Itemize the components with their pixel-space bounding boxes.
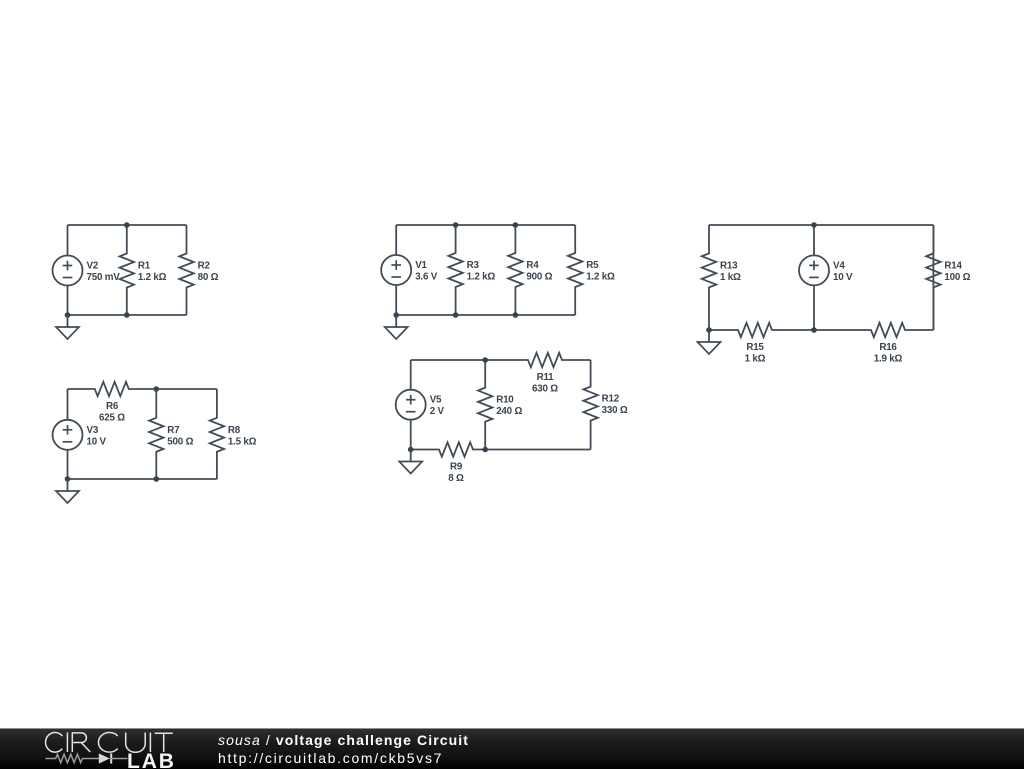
resistor R2 (80 Ω) bbox=[179, 225, 218, 315]
node junction V3 bottom / ground bbox=[65, 476, 71, 482]
voltage source V1 (3.6 V) bbox=[381, 225, 438, 315]
node junction R10 top bbox=[482, 357, 488, 363]
resistor R10 (240 Ω) bbox=[478, 360, 522, 450]
node junction R4 top bbox=[513, 222, 519, 228]
wire top rail right circuit4 bbox=[156, 388, 217, 390]
wire bottom rail circuit2 bbox=[396, 314, 575, 316]
node junction R3 bottom bbox=[453, 312, 459, 318]
resistor R11 (630 Ω) bbox=[485, 353, 590, 395]
logo wire with resistor bbox=[46, 754, 99, 762]
node junction R7 top bbox=[154, 386, 160, 392]
wire top rail circuit3 bbox=[709, 224, 933, 226]
resistor R15 (1 kΩ) bbox=[709, 323, 814, 365]
footer url text bbox=[218, 750, 443, 766]
ground bbox=[385, 315, 408, 339]
wire bottom rail right circuit5 bbox=[485, 449, 590, 451]
resistor R7 (500 Ω) bbox=[149, 389, 193, 479]
logo letter R bbox=[72, 733, 90, 752]
logo letter C bbox=[46, 732, 63, 752]
wire top rail circuit1 bbox=[68, 224, 187, 226]
logo letter T bbox=[155, 733, 173, 752]
logo letter U bbox=[126, 733, 146, 753]
node junction R7 bottom bbox=[154, 476, 160, 482]
resistor R16 (1.9 kΩ) bbox=[814, 323, 933, 365]
wire top rail left circuit5 bbox=[411, 359, 486, 361]
logo diode bbox=[99, 753, 110, 763]
wire bottom rail circuit1 bbox=[68, 314, 187, 316]
node junction R13 bottom / ground bbox=[706, 327, 712, 333]
svg-text:LAB: LAB bbox=[127, 750, 176, 768]
ground bbox=[56, 479, 79, 503]
voltage source V4 (10 V) bbox=[799, 225, 853, 330]
resistor R12 (330 Ω) bbox=[583, 360, 627, 450]
footer bar bbox=[0, 728, 1024, 769]
ground bbox=[56, 315, 79, 339]
logo letter I2 bbox=[149, 733, 151, 753]
node junction V1 bottom / ground bbox=[393, 312, 399, 318]
ground bbox=[399, 450, 422, 474]
logo letter C2 bbox=[98, 732, 117, 752]
resistor R13 (1 kΩ) bbox=[702, 225, 741, 330]
voltage source V5 (2 V) bbox=[396, 360, 445, 450]
resistor R5 (1.2 kΩ) bbox=[568, 225, 615, 315]
resistor R9 (8 Ω) bbox=[411, 442, 486, 484]
resistor R14 (100 Ω) bbox=[926, 225, 970, 330]
voltage source V3 (10 V) bbox=[53, 389, 107, 479]
node junction R3 top bbox=[453, 222, 459, 228]
resistor R4 (900 Ω) bbox=[508, 225, 552, 315]
wire top rail circuit2 bbox=[396, 224, 575, 226]
resistor R1 (1.2 kΩ) bbox=[120, 225, 167, 315]
wire right rail circuit3 (R14 handled separately) bbox=[932, 225, 934, 330]
node junction R4 bottom bbox=[513, 312, 519, 318]
node junction V2 bottom / ground bbox=[65, 312, 71, 318]
node junction R10 bottom bbox=[482, 447, 488, 453]
node junction V4 top bbox=[811, 222, 817, 228]
node junction V4 bottom bbox=[811, 327, 817, 333]
wire bottom rail circuit4 bbox=[68, 478, 217, 480]
ground bbox=[698, 330, 721, 354]
logo letter I bbox=[66, 733, 68, 753]
resistor R6 (625 Ω) bbox=[68, 382, 157, 424]
footer title text bbox=[218, 732, 469, 748]
node junction R1 top bbox=[124, 222, 130, 228]
resistor R3 (1.2 kΩ) bbox=[448, 225, 495, 315]
voltage source V2 (750 mV) bbox=[53, 225, 121, 315]
node junction R1 bottom bbox=[124, 312, 130, 318]
resistor R8 (1.5 kΩ) bbox=[210, 389, 257, 479]
node junction V5 bottom / ground bbox=[408, 447, 414, 453]
